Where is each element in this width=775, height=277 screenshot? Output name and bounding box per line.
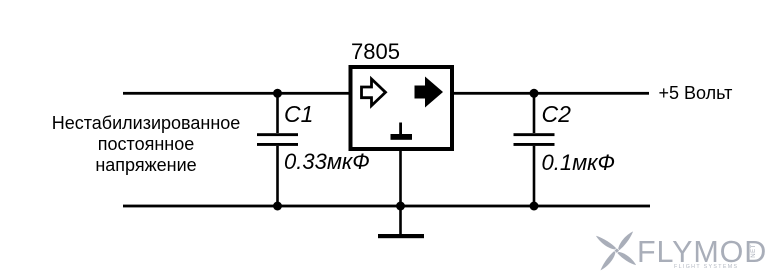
- watermark FLIGHT SYSTEMS tagline: [674, 265, 738, 270]
- capacitor C1 plates: [257, 133, 298, 136]
- wire: C1 bottom lead: [276, 146, 279, 206]
- watermark FLYMOD wordmark: [637, 237, 767, 268]
- input arrow (outline) inside U1: [362, 79, 386, 106]
- output arrow (solid) inside U1: [415, 77, 444, 108]
- node label: +5 Volt output: [659, 84, 733, 102]
- node: junction dot ground lead / bottom rail: [396, 202, 405, 211]
- regulator U1 7805 body: [351, 67, 453, 149]
- wire: bottom rail (ground rail): [123, 205, 650, 208]
- label: C2 value 0.1uF: [542, 152, 616, 174]
- node: junction dot C1 / top rail: [273, 89, 282, 98]
- ground pin symbol inside U1: [399, 123, 402, 135]
- label: unregulated DC voltage text: [36, 113, 256, 176]
- label: C1: [284, 103, 313, 126]
- label: C2: [542, 103, 571, 126]
- ground symbol: [378, 234, 424, 238]
- node: junction dot C2 / top rail: [530, 89, 539, 98]
- node: junction dot C1 / bottom rail: [273, 202, 282, 211]
- watermark NET vertical text in D: [751, 244, 757, 258]
- wire: C2 top lead: [533, 93, 536, 133]
- capacitor C2 plates: [514, 133, 555, 136]
- FLYMOD watermark propeller icon: [595, 231, 637, 272]
- wire: C2 bottom lead: [533, 146, 536, 206]
- wire: regulator ground lead down to ground: [399, 149, 402, 234]
- node: junction dot C2 / bottom rail: [530, 202, 539, 211]
- label: C1 value 0.33uF: [284, 151, 370, 173]
- label: 7805: [351, 41, 400, 63]
- wire: C1 top lead: [276, 93, 279, 133]
- wire: top rail (input to +5V output): [123, 92, 649, 95]
